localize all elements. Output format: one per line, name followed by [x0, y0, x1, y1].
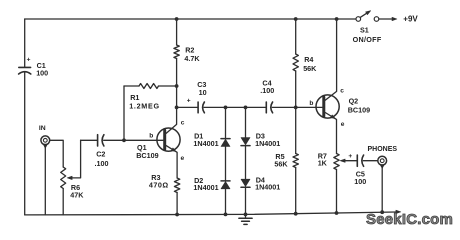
svg-text:+: +: [348, 153, 352, 160]
transistor Q1 emitter: [166, 146, 177, 178]
wire base node to R5: [295, 107, 297, 153]
svg-text:1N4001: 1N4001: [193, 139, 218, 148]
svg-text:S1: S1: [360, 26, 369, 35]
svg-text:SeekIC.com: SeekIC.com: [366, 211, 453, 228]
node D1 top: [224, 106, 228, 110]
svg-text:+: +: [187, 98, 191, 105]
svg-text:1N4001: 1N4001: [255, 183, 280, 192]
wire left rail lower (C1 to ground rail): [24, 72, 26, 215]
svg-text:Q2: Q2: [349, 97, 359, 106]
capacitor C4: [265, 102, 267, 113]
wire base node up to R1: [123, 86, 125, 140]
wire left rail upper (to C1): [24, 19, 26, 67]
wire jack to ground rail: [44, 147, 46, 215]
wire D3 node to C4: [246, 106, 267, 108]
wire R5 to rail: [295, 168, 297, 214]
wire C3 left: [177, 106, 198, 108]
wire R7 to rail: [336, 170, 338, 214]
node R5 bottom: [294, 212, 298, 216]
wire R6 bottom to rail: [62, 189, 64, 215]
switch S1 lever: [360, 13, 368, 18]
node R7 bottom: [335, 211, 339, 215]
wire C5 to phones jack: [363, 160, 378, 162]
wire wiper node to C2: [81, 139, 98, 141]
wire collector node to Q1: [166, 107, 177, 133]
wire top supply rail: [25, 18, 356, 20]
capacitor C2: [97, 135, 99, 146]
svg-text:1.2MEG: 1.2MEG: [129, 102, 160, 111]
svg-text:56K: 56K: [303, 64, 317, 73]
svg-text:4.7K: 4.7K: [184, 54, 200, 63]
switch S1 left contact: [356, 17, 361, 22]
svg-text:47K: 47K: [70, 191, 84, 200]
svg-text:1N4001: 1N4001: [193, 183, 218, 192]
wire D3 branch upper: [245, 107, 247, 137]
svg-text:100: 100: [354, 177, 366, 186]
svg-text:10: 10: [199, 88, 207, 97]
wire D2 to rail: [225, 189, 227, 215]
wire D1 node to D3 node: [226, 106, 246, 108]
node R1/R2 junction: [175, 84, 179, 88]
transistor Q1 base bar: [163, 130, 166, 149]
svg-text:+: +: [27, 57, 31, 64]
node D4 / ground junction: [244, 213, 248, 217]
svg-text:c: c: [340, 87, 344, 94]
svg-text:C2: C2: [96, 150, 105, 159]
diode D4 (1N4001, pointing down): [241, 179, 250, 186]
resistor R1 (1.2MEG): [124, 85, 139, 87]
capacitor C5: [356, 155, 358, 166]
node top rail / Q2 collector: [335, 17, 339, 21]
wire phones jack to rail: [381, 168, 383, 213]
resistor R3 (470 ohm): [174, 178, 179, 193]
diode D3 (1N4001, pointing down): [241, 138, 250, 145]
svg-text:ON/OFF: ON/OFF: [353, 35, 382, 44]
node R3 bottom: [175, 213, 179, 217]
ground: [245, 214, 247, 218]
node phones jack bottom: [380, 210, 384, 214]
transistor Q1 outline: [157, 128, 180, 151]
input jack J1: [41, 136, 50, 145]
wire base node to Q2 base: [296, 106, 322, 108]
wire D1 to D2: [225, 147, 227, 181]
node D3 top: [244, 106, 248, 110]
R7 wiper arrow: [343, 160, 357, 162]
transistor Q2 outline: [316, 95, 339, 118]
svg-text:BC109: BC109: [136, 151, 158, 160]
wire ground-rail end arrow: [396, 210, 401, 213]
wire R4 to base node: [295, 71, 297, 107]
output jack PHONES: [378, 156, 387, 165]
svg-text:e: e: [341, 121, 345, 128]
capacitor C1: [19, 66, 31, 68]
svg-text:BC109: BC109: [348, 106, 370, 115]
svg-text:470Ω: 470Ω: [149, 180, 169, 189]
diode D1 (1N4001, pointing up): [221, 138, 230, 140]
diode D2 (1N4001, pointing up): [221, 180, 230, 182]
node top rail / R4: [294, 17, 298, 21]
R6 wiper arrow: [70, 140, 81, 178]
resistor R7 (1K pot): [334, 154, 339, 170]
svg-text:1N4001: 1N4001: [255, 139, 280, 148]
wire jack to R6 top: [50, 140, 64, 167]
resistor R4 (56K): [293, 54, 298, 71]
wire D1 branch upper: [225, 107, 227, 138]
switch S1 right contact: [374, 17, 379, 22]
node top rail / R2: [175, 17, 179, 21]
wire top rail to R4: [295, 19, 297, 54]
svg-text:.100: .100: [95, 159, 109, 168]
wire switch to +9V arrow: [379, 18, 392, 20]
node D2 bottom: [224, 213, 228, 217]
wire bottom ground rail: [25, 212, 396, 215]
svg-text:IN: IN: [39, 125, 46, 132]
node C3 / collector junction: [175, 106, 179, 110]
capacitor C3: [197, 102, 199, 113]
svg-text:b: b: [149, 132, 153, 139]
node R4/R5/base junction: [294, 106, 298, 110]
wire D4 to rail: [245, 187, 247, 214]
svg-text:56K: 56K: [274, 159, 288, 168]
transistor Q2 base bar: [322, 97, 325, 116]
svg-text:.100: .100: [260, 86, 274, 95]
wire D3 to D4: [245, 146, 247, 180]
svg-text:c: c: [181, 120, 185, 127]
svg-text:+9V: +9V: [403, 15, 418, 24]
svg-text:100: 100: [36, 69, 48, 78]
wire top rail to Q2 collector: [325, 19, 336, 100]
svg-text:1K: 1K: [318, 158, 328, 167]
node base of Q1 / R1 junction: [122, 138, 126, 142]
resistor R2 (4.7K): [174, 45, 179, 59]
resistor R5 (56K): [293, 154, 298, 168]
transistor Q2 emitter: [325, 113, 336, 154]
wire C4 to base node: [272, 106, 295, 108]
svg-text:e: e: [181, 155, 185, 162]
wire C3 to D1 node: [204, 106, 225, 108]
wire C2 to Q1 base: [104, 139, 163, 141]
wire R2 to collector node: [176, 59, 178, 108]
resistor R6 (47K pot): [61, 167, 66, 189]
wire top rail to R2: [176, 19, 178, 45]
svg-text:R4: R4: [304, 55, 313, 64]
svg-text:b: b: [309, 100, 313, 107]
svg-text:PHONES: PHONES: [368, 146, 398, 153]
